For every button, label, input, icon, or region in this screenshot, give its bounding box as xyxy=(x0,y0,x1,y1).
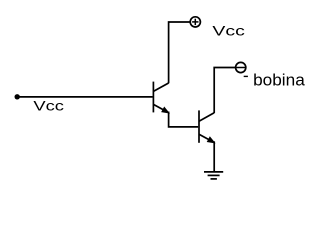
svg-text:Vcc: Vcc xyxy=(212,23,244,39)
svg-text:bobina: bobina xyxy=(253,71,306,89)
transistor Q2 xyxy=(199,110,214,142)
wire Q2 emitter to ground xyxy=(213,141,215,172)
node Vcc input xyxy=(15,94,20,99)
terminal + Vcc xyxy=(190,17,200,27)
terminal - bobina xyxy=(236,62,246,72)
wire base Q1 xyxy=(17,96,152,98)
wire Q1 emitter to Q2 base xyxy=(169,112,199,127)
svg-text:Vcc: Vcc xyxy=(33,97,64,113)
minus mark of terminal xyxy=(244,75,248,77)
arrow Q1 emitter xyxy=(162,107,169,113)
ground xyxy=(204,172,223,179)
wire Q2 collector to -bobina terminal xyxy=(214,68,235,114)
arrow Q2 emitter xyxy=(208,137,215,143)
transistor Q1 xyxy=(153,82,168,113)
wire Q1 collector to +Vcc terminal xyxy=(169,22,190,83)
